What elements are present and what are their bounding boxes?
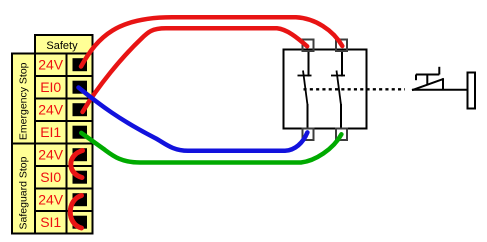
S1 top terminal clamp 2 xyxy=(336,40,347,52)
Safeguard Stop sidebar xyxy=(12,144,35,234)
S1 bottom terminal clamp 1 xyxy=(303,129,314,141)
terminal 24V row 3 label xyxy=(38,102,64,118)
Safety header xyxy=(35,35,93,54)
svg-text:SI1: SI1 xyxy=(40,214,61,230)
terminal EI0 pad xyxy=(73,81,88,94)
terminal EI1 label xyxy=(40,124,61,140)
svg-text:Emergency Stop: Emergency Stop xyxy=(17,62,29,140)
terminal 24V row 5 pad xyxy=(73,148,88,161)
wire red 24V(row1) to S1 contact 2 top xyxy=(81,17,342,66)
Emergency Stop sidebar xyxy=(12,54,35,144)
svg-text:Safety: Safety xyxy=(46,40,78,52)
terminal 24V row 3 pad xyxy=(73,103,88,116)
actuator plunger xyxy=(468,73,476,109)
wire red jumper 24V(row7) to SI1 xyxy=(70,196,81,229)
terminal SI0 label xyxy=(40,169,61,185)
S1 bottom terminal clamp 2 xyxy=(336,129,347,141)
terminal 24V row 1 label xyxy=(38,57,64,73)
terminal 24V row 1 pad xyxy=(73,58,88,71)
terminal SI1 pad xyxy=(73,216,88,229)
wire green EI1 to S1 contact 2 bottom xyxy=(81,133,341,163)
wire red jumper 24V(row5) to SI0 xyxy=(71,151,83,178)
svg-text:EI1: EI1 xyxy=(40,124,61,140)
terminal SI0 pad xyxy=(73,171,88,184)
terminal SI1 label xyxy=(40,214,61,230)
wire red 24V(row3) to S1 contact 1 top xyxy=(83,28,308,112)
terminal EI0 label xyxy=(40,79,61,95)
wire blue EI0 to S1 contact 1 bottom xyxy=(79,88,308,151)
S1 contact 2 (NC) xyxy=(331,50,345,129)
terminal block yellow body xyxy=(35,54,93,234)
S1 top terminal clamp 1 xyxy=(303,40,314,52)
svg-text:24V: 24V xyxy=(38,147,64,163)
mechanical link (dotted) xyxy=(304,88,406,90)
terminal 24V row 5 label xyxy=(38,147,64,163)
svg-text:EI0: EI0 xyxy=(40,79,61,95)
terminal 24V row 7 label xyxy=(38,192,64,208)
svg-text:Safeguard Stop: Safeguard Stop xyxy=(17,156,29,229)
terminal 24V row 7 pad xyxy=(73,193,88,206)
S1 contact 1 (NC) xyxy=(298,50,312,129)
terminal EI1 pad xyxy=(73,126,88,139)
svg-text:SI0: SI0 xyxy=(40,169,61,185)
svg-text:24V: 24V xyxy=(38,192,64,208)
emergency stop switch S1 contact block body xyxy=(284,50,367,129)
emergency stop actuator (mushroom head) xyxy=(412,67,468,90)
svg-text:24V: 24V xyxy=(38,102,64,118)
svg-text:24V: 24V xyxy=(38,57,64,73)
